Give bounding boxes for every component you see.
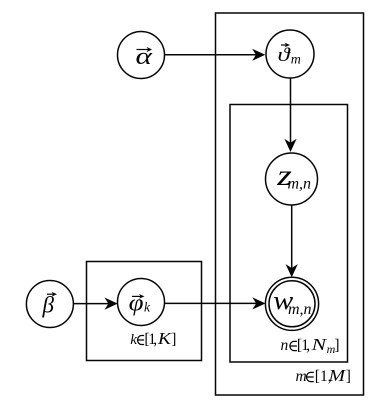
svg-text:,: , <box>153 331 157 348</box>
svg-text:m,n: m,n <box>288 301 312 318</box>
svg-text:m,n: m,n <box>288 176 312 193</box>
arrowhead into w <box>252 297 265 309</box>
svg-text:,: , <box>306 337 310 354</box>
svg-text:M: M <box>328 366 347 384</box>
arrowhead into z <box>284 139 296 152</box>
label vec alpha <box>136 43 154 70</box>
wire phi->w <box>165 302 257 304</box>
svg-text:N: N <box>310 336 327 354</box>
svg-text:n: n <box>281 337 289 354</box>
svg-text:α: α <box>136 43 154 70</box>
arrowhead into w <box>286 264 298 277</box>
plate M (outer, m∈[1,M]) <box>216 13 364 395</box>
node phi (circle) <box>118 279 165 326</box>
svg-text:ϑ: ϑ <box>278 44 291 66</box>
label vec beta <box>42 292 58 318</box>
svg-text:]: ] <box>346 368 351 385</box>
label z_{m,n} <box>276 159 311 192</box>
arrowhead into phi <box>105 298 118 310</box>
node alpha (circle) <box>118 32 165 79</box>
svg-text:]: ] <box>334 337 339 354</box>
svg-text:]: ] <box>171 331 176 348</box>
label vec phi_k <box>129 289 151 316</box>
arrowhead into theta <box>252 49 265 61</box>
label n∈[1,N_m] <box>281 336 340 356</box>
wire beta->phi <box>73 303 109 305</box>
node z (circle) <box>266 153 318 205</box>
wire z->w <box>291 205 293 269</box>
svg-text:φ: φ <box>129 289 144 316</box>
svg-text:m: m <box>291 53 301 68</box>
plate K (k∈[1,K]) <box>87 262 202 361</box>
wire theta->z <box>290 78 292 144</box>
label m∈[1,M] <box>296 366 351 385</box>
svg-text:k: k <box>144 300 151 315</box>
label k∈[1,K] <box>130 329 176 348</box>
wire alpha->theta <box>165 54 257 56</box>
svg-text:k: k <box>130 332 137 348</box>
label w_{m,n} <box>273 287 311 318</box>
svg-text:β: β <box>42 293 55 318</box>
plate N (inner, n∈[1,Nm]) <box>230 105 348 363</box>
svg-text:m: m <box>296 368 307 385</box>
label vec theta_m <box>278 43 301 68</box>
node beta (circle) <box>26 281 73 328</box>
node w (double circle) <box>265 277 318 330</box>
node theta (circle) <box>266 30 314 78</box>
